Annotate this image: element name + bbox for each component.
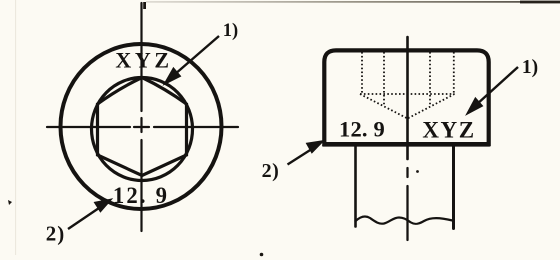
svg-text:2): 2) [46, 222, 66, 246]
svg-text:XYZ: XYZ [115, 48, 172, 73]
svg-text:12. 9: 12. 9 [113, 183, 169, 208]
svg-text:2): 2) [262, 160, 280, 182]
svg-text:1): 1) [223, 21, 238, 41]
svg-text:1): 1) [522, 57, 538, 78]
svg-text:12. 9: 12. 9 [339, 117, 385, 142]
svg-text:XYZ: XYZ [422, 118, 475, 143]
